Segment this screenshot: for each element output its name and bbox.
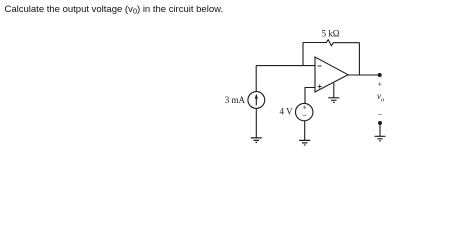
svg-text:3 mA: 3 mA xyxy=(225,95,246,105)
svg-text:5 kΩ: 5 kΩ xyxy=(322,29,340,39)
svg-text:4 V: 4 V xyxy=(280,107,294,117)
svg-text:vo: vo xyxy=(377,91,385,103)
